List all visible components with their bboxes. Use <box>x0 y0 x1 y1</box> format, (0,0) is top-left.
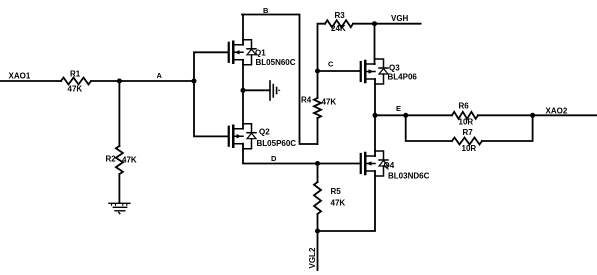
ground <box>270 81 281 100</box>
svg-text:VGH: VGH <box>391 14 409 23</box>
junction <box>315 229 320 234</box>
wire <box>91 80 194 82</box>
junction <box>530 113 535 118</box>
svg-text:B: B <box>263 6 269 15</box>
junction <box>192 79 197 84</box>
junction <box>315 161 320 166</box>
wire <box>482 115 533 141</box>
svg-text:Q3: Q3 <box>389 64 400 73</box>
transistor Q3 <box>361 59 418 84</box>
transistor Q1 <box>229 40 296 67</box>
svg-text:R5: R5 <box>331 187 342 196</box>
resistor R7 <box>452 128 482 153</box>
svg-text:A: A <box>157 71 163 80</box>
node E <box>375 104 597 115</box>
junction <box>403 113 408 118</box>
resistor R6 <box>452 102 478 127</box>
wire <box>118 174 120 203</box>
ground <box>109 203 130 213</box>
junction <box>117 79 122 84</box>
svg-text:10R: 10R <box>459 118 474 127</box>
wire <box>317 231 319 270</box>
transistor Q4 <box>361 151 430 181</box>
net label VGH <box>375 14 421 24</box>
wire <box>0 80 61 82</box>
svg-text:47K: 47K <box>68 85 83 94</box>
svg-text:BL03ND6C: BL03ND6C <box>388 172 430 181</box>
transistor Q2 <box>229 124 297 149</box>
node C <box>318 60 361 72</box>
svg-text:47K: 47K <box>322 98 337 107</box>
resistor R1 <box>61 70 91 94</box>
wire <box>194 52 228 136</box>
junction <box>372 21 377 26</box>
resistor R5 <box>314 164 345 232</box>
wire <box>243 144 360 164</box>
resistor R2 <box>106 146 137 174</box>
junction <box>315 69 320 74</box>
wire <box>374 24 376 64</box>
svg-text:Q2: Q2 <box>259 128 270 137</box>
resistor R3 <box>318 11 375 71</box>
svg-text:D: D <box>271 154 277 163</box>
svg-text:VGL2: VGL2 <box>308 247 317 268</box>
resistor R4 <box>301 71 336 144</box>
svg-text:BL4P06: BL4P06 <box>388 73 418 82</box>
wire <box>242 90 244 128</box>
wire <box>374 79 376 115</box>
svg-text:R1: R1 <box>70 70 81 79</box>
svg-text:BL05P60C: BL05P60C <box>257 139 297 148</box>
svg-text:Q1: Q1 <box>255 49 266 58</box>
node B <box>242 6 318 144</box>
wire <box>406 115 452 141</box>
wire <box>118 81 120 146</box>
svg-text:E: E <box>396 104 401 113</box>
svg-text:47K: 47K <box>331 199 346 208</box>
svg-text:R4: R4 <box>301 96 312 105</box>
wire <box>318 171 376 231</box>
svg-text:10R: 10R <box>462 144 477 153</box>
svg-text:24K: 24K <box>331 24 346 33</box>
svg-text:47K: 47K <box>122 156 137 165</box>
wire <box>243 89 269 91</box>
svg-text:Q4: Q4 <box>384 161 395 170</box>
junction <box>373 113 378 118</box>
junction <box>241 88 246 93</box>
wire <box>374 115 376 156</box>
svg-text:R6: R6 <box>459 102 470 111</box>
svg-text:R7: R7 <box>463 128 474 137</box>
svg-text:R2: R2 <box>106 155 117 164</box>
wire <box>242 15 244 45</box>
svg-text:C: C <box>328 60 334 69</box>
svg-text:BL05N60C: BL05N60C <box>256 58 296 67</box>
wire <box>242 60 244 91</box>
svg-text:R3: R3 <box>335 11 346 20</box>
svg-text:XAO1: XAO1 <box>9 72 31 81</box>
svg-text:XAO2: XAO2 <box>546 107 568 116</box>
